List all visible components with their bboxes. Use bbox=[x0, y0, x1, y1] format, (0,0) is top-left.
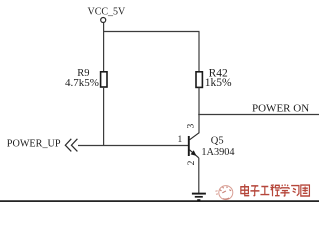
wire: POWER ON horizontal to right edge bbox=[198, 114, 319, 116]
svg-text:1A3904: 1A3904 bbox=[201, 147, 234, 158]
pin number 1 (base) bbox=[178, 135, 183, 145]
transistor Q5 designator label bbox=[211, 136, 224, 147]
wire: emitter down to ground bbox=[198, 158, 200, 193]
char 学 bbox=[280, 184, 289, 196]
watermark logo circle bbox=[215, 186, 232, 200]
svg-text:POWER ON: POWER ON bbox=[252, 103, 309, 115]
char 工 bbox=[260, 186, 269, 194]
wire: R42 bottom down to collector bbox=[198, 88, 200, 134]
VCC_5V terminal circle bbox=[101, 18, 106, 23]
char 圈 bbox=[301, 185, 310, 196]
resistor R9 value label 4.7k 5% bbox=[65, 77, 99, 89]
char 程 bbox=[270, 185, 279, 196]
wire: top horizontal branch to right bbox=[103, 31, 200, 33]
wire: POWER_UP to transistor base bbox=[78, 145, 189, 147]
char 习 bbox=[291, 186, 299, 196]
svg-text:2: 2 bbox=[187, 160, 197, 165]
transistor Q5 emitter diagonal with arrow bbox=[190, 150, 199, 158]
resistor R42 value label 1k 5% bbox=[205, 77, 232, 89]
bottom border line bbox=[0, 200, 319, 202]
transistor Q5 base bar bbox=[188, 136, 190, 156]
pin number 3 (collector), rotated bbox=[187, 124, 197, 129]
ground symbol bbox=[192, 194, 206, 200]
svg-text:POWER_UP: POWER_UP bbox=[7, 139, 61, 150]
resistor R9 body bbox=[101, 72, 107, 87]
svg-text:4.7k5%: 4.7k5% bbox=[65, 77, 99, 89]
wire: R9 bottom down to base wire junction bbox=[103, 87, 105, 146]
pin number 2 (emitter), rotated bbox=[187, 160, 197, 165]
watermark text 电子工程学习圈 (drawn as strokes) bbox=[241, 184, 310, 196]
wire: VCC circle down to R9 top bbox=[103, 23, 105, 72]
resistor R42 designator label bbox=[209, 67, 228, 79]
resistor R9 designator label bbox=[77, 68, 89, 79]
svg-text:1k5%: 1k5% bbox=[205, 77, 232, 89]
net label POWER_UP bbox=[7, 139, 61, 150]
svg-text:3: 3 bbox=[187, 124, 197, 129]
svg-text:Q5: Q5 bbox=[211, 136, 224, 147]
power net VCC_5V label bbox=[88, 6, 127, 17]
net label POWER ON bbox=[252, 103, 309, 115]
char 子 bbox=[250, 186, 259, 196]
resistor R42 body bbox=[196, 72, 202, 88]
svg-text:VCC_5V: VCC_5V bbox=[88, 6, 127, 17]
wire: right branch down to R42 top bbox=[198, 32, 200, 73]
transistor Q5 part number 1A3904 bbox=[201, 147, 234, 158]
POWER_UP input port double chevron bbox=[65, 139, 77, 152]
transistor Q5 collector diagonal bbox=[190, 133, 200, 140]
svg-text:1: 1 bbox=[178, 135, 183, 145]
char 电 bbox=[241, 184, 249, 195]
